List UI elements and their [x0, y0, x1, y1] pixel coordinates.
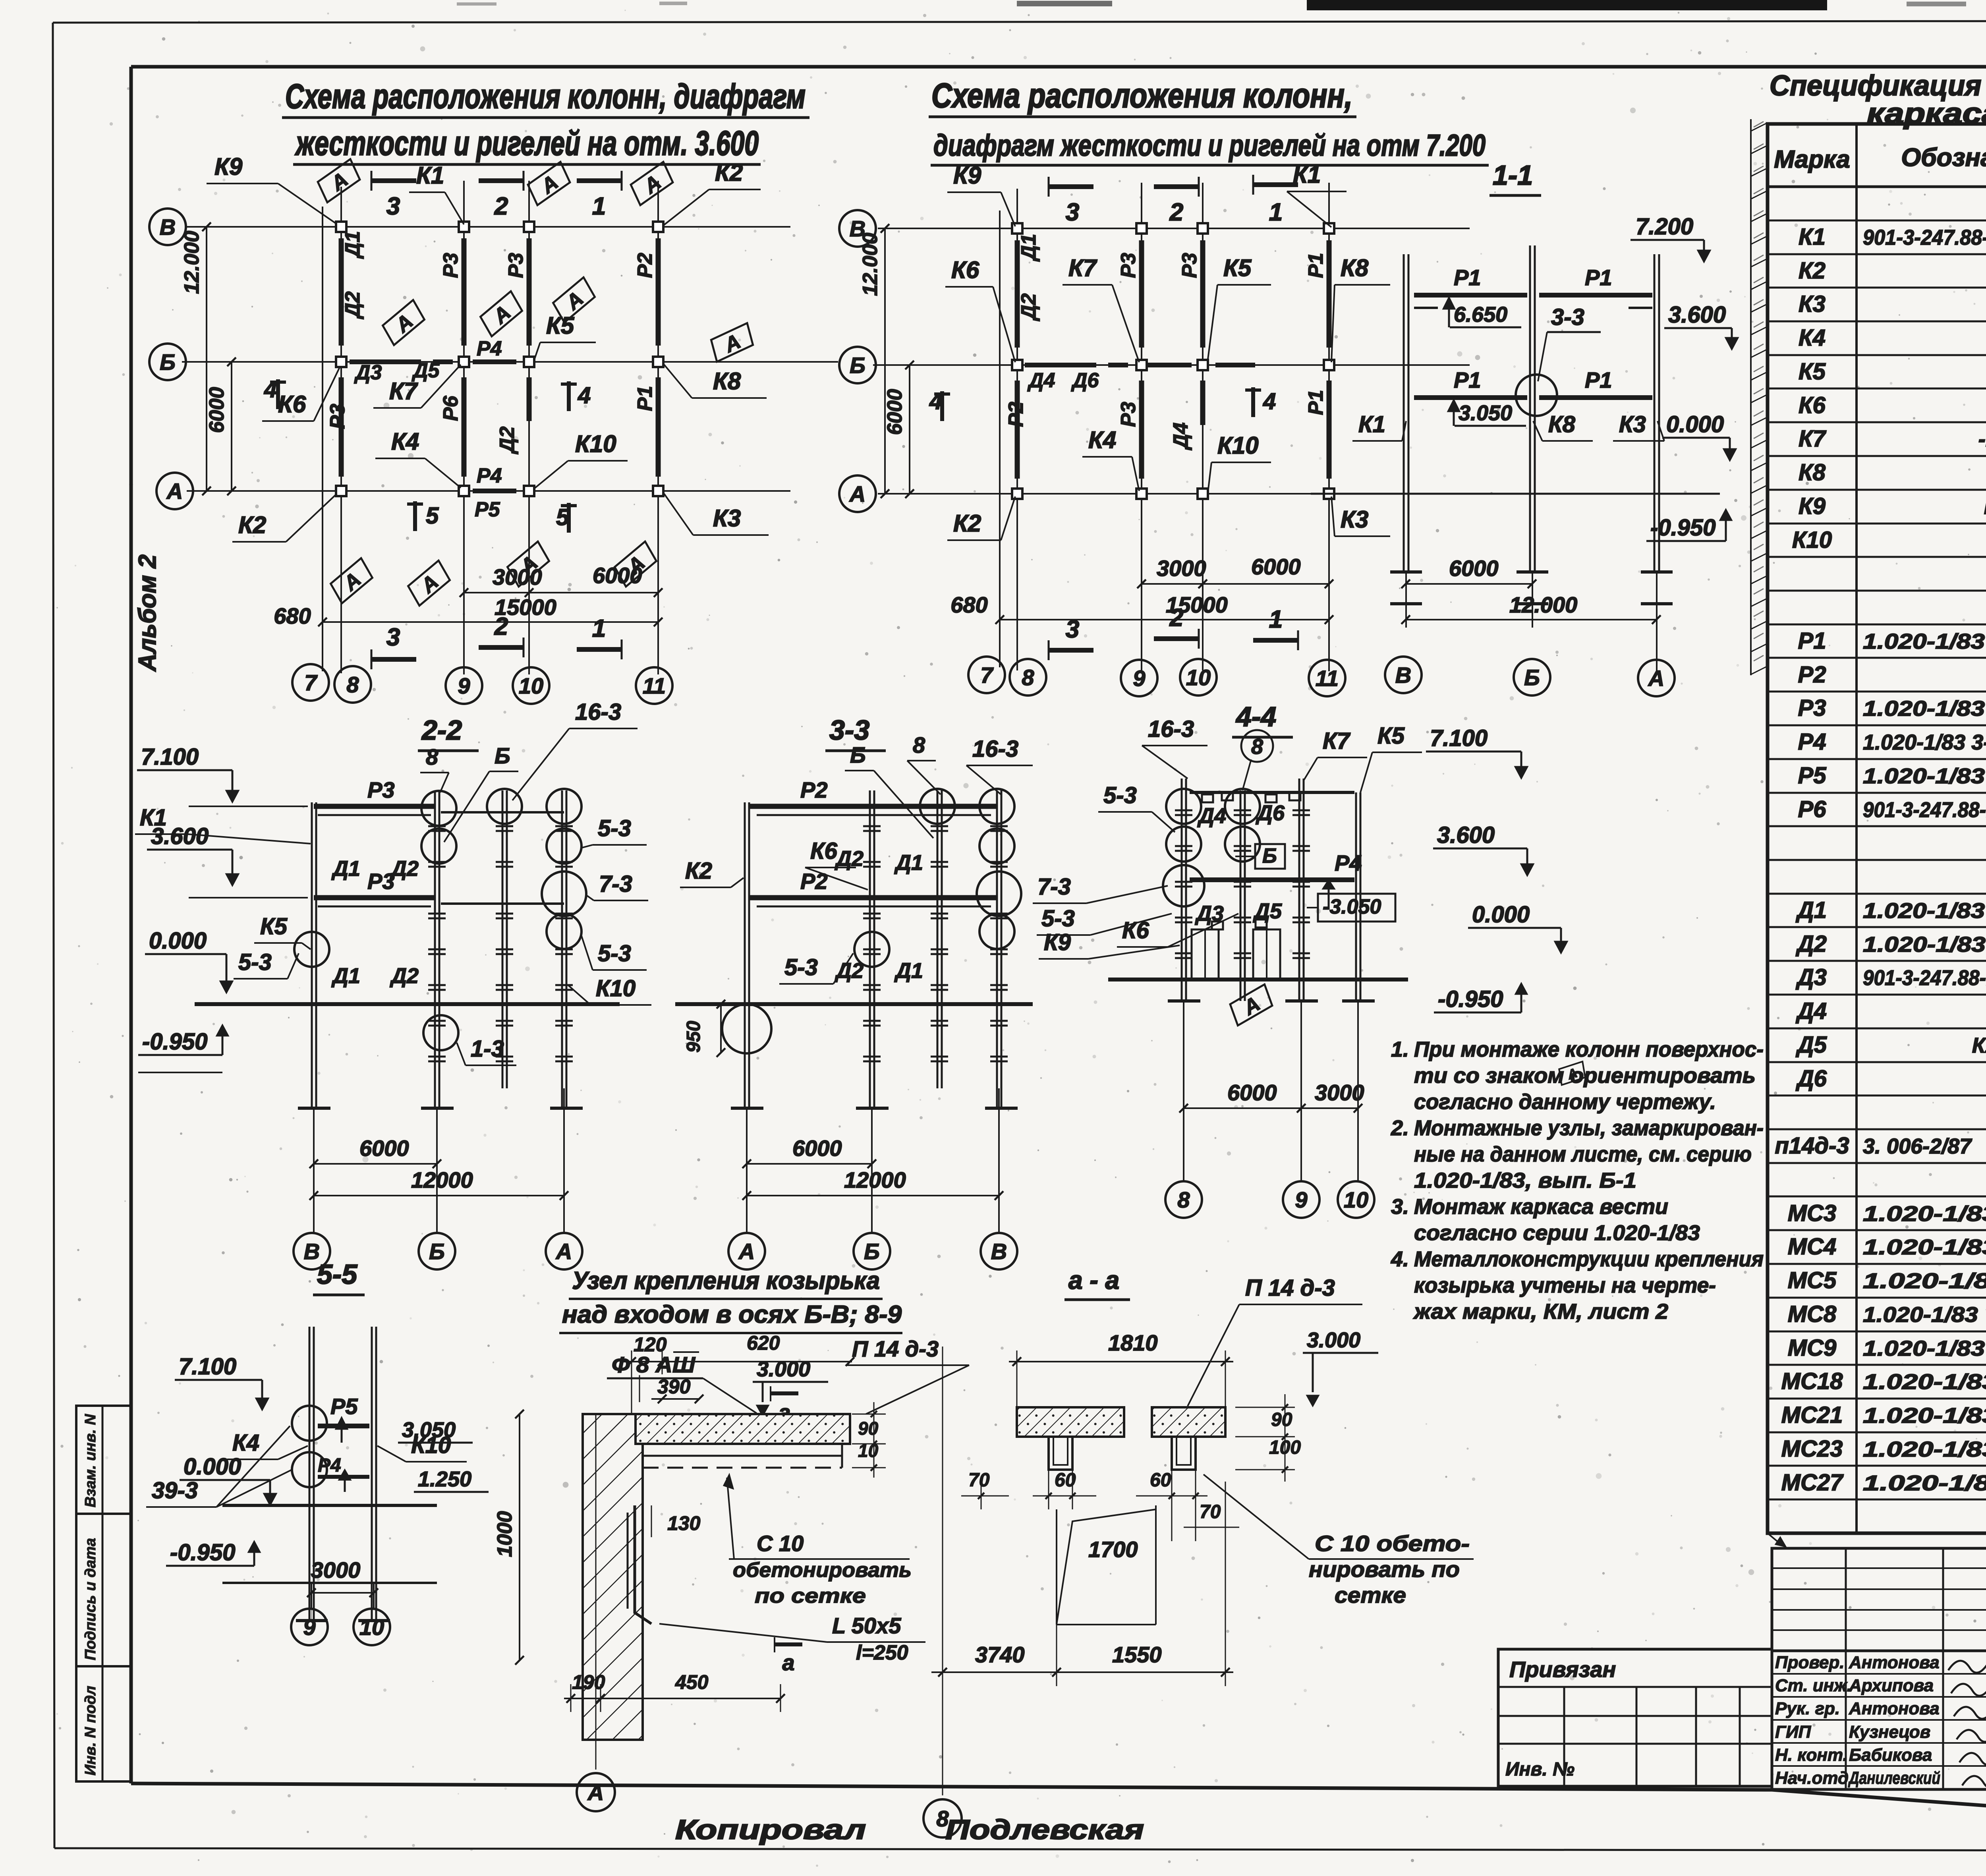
spec table row 20 — [1768, 859, 1986, 861]
spec table row 16 — [1768, 725, 1986, 726]
section 3-3 bottom axis circle B — [854, 1233, 890, 1269]
svg-text:Д3: Д3 — [1195, 902, 1224, 925]
svg-text:Д1: Д1 — [1017, 234, 1040, 262]
svg-text:950: 950 — [683, 1021, 704, 1053]
section 4-4 bottom axis circle 8 — [1165, 1181, 1202, 1218]
section 3-3 diaphragm mid — [937, 790, 939, 1088]
svg-text:39-3: 39-3 — [152, 1478, 198, 1503]
svg-text:3740: 3740 — [975, 1642, 1025, 1667]
svg-text:Р3: Р3 — [1117, 253, 1140, 278]
plan2 section cut 1 bottom — [1253, 638, 1298, 643]
svg-text:5-3: 5-3 — [1041, 906, 1075, 931]
svg-text:3.: 3. — [1391, 1195, 1409, 1219]
svg-text:L 50х5: L 50х5 — [832, 1613, 901, 1638]
plan2 bottom axis circle 7 — [968, 657, 1005, 693]
svg-text:1000: 1000 — [493, 1511, 516, 1557]
svg-text:9: 9 — [303, 1615, 315, 1640]
spec table row 29 — [1768, 1162, 1986, 1164]
svg-text:Р4: Р4 — [1335, 850, 1362, 875]
svg-text:Д5: Д5 — [1253, 899, 1282, 923]
svg-text:5-3: 5-3 — [1103, 782, 1137, 808]
svg-text:2: 2 — [1169, 199, 1183, 226]
spec table row 2 — [1768, 253, 1986, 255]
svg-text:К8: К8 — [1548, 412, 1576, 437]
svg-text:Кузнецов: Кузнецов — [1849, 1722, 1930, 1742]
detail a-a opening sketch 1700 — [1056, 1509, 1057, 1625]
plan1 section cut 1 bottom — [577, 647, 622, 652]
svg-text:1.020-1/83 4-1 22.01: 1.020-1/83 4-1 22.01 — [1863, 933, 1986, 956]
section 1-1 bottom axis circle A — [1638, 660, 1675, 696]
svg-text:-0.950: -0.950 — [142, 1029, 207, 1055]
svg-text:Д4: Д4 — [1027, 369, 1055, 392]
svg-text:КЖ.И 31. 000: КЖ.И 31. 000 — [1972, 1034, 1986, 1057]
svg-text:Д3: Д3 — [1795, 964, 1827, 990]
svg-text:К1: К1 — [1358, 412, 1385, 437]
svg-text:1-3: 1-3 — [471, 1036, 504, 1062]
svg-text:1.020-1/83 7-1 040-02: 1.020-1/83 7-1 040-02 — [1863, 1303, 1986, 1327]
svg-text:0.000: 0.000 — [1666, 412, 1724, 437]
detail a-a left plate — [1017, 1407, 1124, 1437]
section 2-2 joint circle 7-3 — [542, 871, 586, 916]
section 5-5 foot marks — [296, 1619, 328, 1622]
section 3-3 bottom axis circle V — [981, 1233, 1017, 1269]
spec table row 10 — [1768, 523, 1986, 525]
svg-text:Данилевский: Данилевский — [1848, 1768, 1940, 1788]
spec table column lines — [1855, 124, 1858, 1533]
spec table row 23 — [1768, 960, 1986, 962]
section 1-1 beams R1 level 6.650 — [1414, 293, 1527, 298]
svg-text:Монтажные узлы, замаркирован-: Монтажные узлы, замаркирован- — [1414, 1116, 1764, 1140]
svg-text:К5: К5 — [260, 914, 288, 939]
section 3-3 dim 6000 — [747, 1163, 872, 1165]
plan1 dim line 3000 6000 — [464, 592, 658, 593]
svg-text:1.020-1/83 7-1 020: 1.020-1/83 7-1 020 — [1863, 1202, 1986, 1226]
section 3-3 dim 950 — [720, 1004, 722, 1053]
plan2 vertical axis 9 — [1141, 183, 1142, 671]
section 4-4 anchor squares — [1202, 794, 1213, 802]
svg-text:Б: Б — [1524, 665, 1540, 690]
svg-text:А: А — [555, 1239, 572, 1264]
plan2 section cut 3 bottom — [1048, 640, 1050, 660]
svg-text:Д1: Д1 — [331, 964, 360, 988]
section 1-1 ground axis line — [1311, 493, 1720, 495]
svg-text:К10: К10 — [1792, 527, 1832, 553]
svg-text:Р1: Р1 — [634, 386, 657, 411]
svg-text:Узел крепления козырька: Узел крепления козырька — [572, 1267, 880, 1294]
plan2 bottom axis circle 8 — [1010, 659, 1046, 696]
svg-text:Р5: Р5 — [1798, 763, 1827, 788]
svg-text:3000: 3000 — [311, 1557, 361, 1582]
svg-text:Р3: Р3 — [1798, 695, 1826, 721]
section 5-5 dim 3000 — [311, 1592, 374, 1594]
svg-text:Д1: Д1 — [894, 851, 923, 875]
plan1 vertical axis 7 — [322, 207, 323, 671]
svg-text:Р3: Р3 — [367, 777, 395, 802]
svg-text:1.020-1/83 4-1 21-01: 1.020-1/83 4-1 21-01 — [1863, 899, 1986, 923]
spec table row 30 — [1768, 1196, 1986, 1198]
svg-text:Р2: Р2 — [634, 253, 657, 278]
svg-text:0.000: 0.000 — [1472, 902, 1530, 927]
svg-text:Подпись и дата: Подпись и дата — [82, 1538, 99, 1660]
plan1 diaphragm bars upper bay — [339, 238, 344, 346]
plan1 axis line B — [182, 361, 838, 363]
svg-text:Р3: Р3 — [1178, 253, 1201, 278]
plan1 bottom axis circle 7 — [292, 664, 329, 701]
svg-text:МС4: МС4 — [1788, 1234, 1836, 1260]
svg-text:Р1: Р1 — [1454, 367, 1481, 392]
spec table row 24 — [1768, 994, 1986, 996]
section 1-1 column A — [1654, 254, 1656, 572]
svg-text:К5: К5 — [1799, 359, 1826, 384]
svg-text:2.: 2. — [1391, 1116, 1409, 1140]
svg-text:5-5: 5-5 — [317, 1259, 357, 1290]
plan2 bottom axis circle 9 — [1121, 660, 1157, 696]
plan1 section cut 3 top — [371, 171, 373, 191]
svg-text:3.600: 3.600 — [1437, 822, 1495, 848]
spec table row 13 — [1768, 624, 1986, 626]
svg-text:Р2: Р2 — [1005, 402, 1028, 427]
plan2 column squares row B — [1012, 360, 1022, 370]
svg-text:Д1: Д1 — [894, 959, 923, 983]
section 2-2 beam R3 upper — [314, 804, 435, 809]
svg-text:Б: Б — [864, 1239, 880, 1264]
svg-text:К3: К3 — [1341, 506, 1368, 533]
svg-text:-0.950: -0.950 — [1650, 515, 1716, 541]
uzel dim 390 — [639, 1375, 640, 1402]
svg-text:70: 70 — [1200, 1501, 1221, 1522]
section 4-4 label B boxed — [1255, 844, 1285, 869]
left of table tick marks — [1754, 122, 1764, 127]
svg-text:К3: К3 — [1799, 291, 1826, 317]
spec table row 19 — [1768, 825, 1986, 827]
svg-text:К10: К10 — [1217, 432, 1259, 459]
svg-text:сетке: сетке — [1335, 1582, 1406, 1607]
svg-text:90: 90 — [858, 1418, 879, 1439]
svg-text:Р1: Р1 — [1304, 390, 1327, 415]
plan2 vertical dim 6000 — [909, 365, 910, 494]
plan1 bottom axis circle 9 — [446, 667, 482, 704]
svg-text:К7: К7 — [1068, 255, 1097, 281]
svg-text:11: 11 — [643, 673, 666, 698]
section 2-2 beam R3 lower — [314, 895, 435, 900]
svg-text:Р3: Р3 — [504, 253, 527, 278]
svg-text:Провер.: Провер. — [1775, 1653, 1844, 1672]
svg-text:К4: К4 — [232, 1430, 259, 1456]
svg-text:12.000: 12.000 — [180, 231, 203, 294]
svg-text:1.020-1/83 3-1 07-01: 1.020-1/83 3-1 07-01 — [1863, 630, 1986, 653]
svg-text:К10: К10 — [575, 431, 616, 457]
section 2-2 bottom axis circle V — [294, 1233, 330, 1269]
svg-text:15000: 15000 — [495, 595, 556, 620]
section 4-4 label 8 circled — [1241, 730, 1273, 762]
svg-text:Д6: Д6 — [1256, 801, 1285, 825]
plan1 section cut 3 bottom — [371, 649, 373, 669]
svg-text:п14д-3: п14д-3 — [1775, 1133, 1849, 1159]
plan1 orientation flags middle — [380, 300, 429, 346]
svg-text:4: 4 — [264, 377, 277, 402]
svg-text:4: 4 — [1263, 388, 1276, 414]
section 2-2 foot marks — [298, 1107, 330, 1110]
svg-text:680: 680 — [950, 592, 987, 617]
svg-text:К4: К4 — [1799, 325, 1826, 351]
plan2 vertical axis 8 — [1016, 189, 1018, 670]
section 1-1 beams R1 level 3.050 — [1414, 395, 1527, 400]
section 3-3 column K2 — [744, 802, 746, 1108]
section 4-4 foot marks — [1168, 999, 1200, 1003]
svg-text:Схема расположения колонн,: Схема расположения колонн, — [931, 77, 1352, 115]
svg-text:К5: К5 — [1377, 723, 1405, 749]
svg-text:К9: К9 — [1799, 493, 1826, 519]
svg-text:Б: Б — [429, 1239, 445, 1264]
svg-text:нировать по: нировать по — [1309, 1557, 1460, 1582]
svg-text:В: В — [991, 1239, 1007, 1264]
section 4-4 ground line — [1108, 978, 1408, 981]
svg-text:1.020-1/83 6-1 084: 1.020-1/83 6-1 084 — [1863, 1404, 1986, 1428]
svg-text:9: 9 — [458, 673, 470, 698]
svg-text:П 14 д-3: П 14 д-3 — [852, 1336, 939, 1361]
svg-text:1: 1 — [1269, 199, 1283, 226]
svg-text:901-3-247.88-КЖИ. 30.000: 901-3-247.88-КЖИ. 30.000 — [1863, 966, 1986, 990]
svg-text:6000: 6000 — [205, 387, 228, 433]
section 3-3 column right — [996, 790, 998, 1108]
svg-text:К6: К6 — [951, 257, 979, 283]
svg-text:12.000: 12.000 — [859, 233, 882, 296]
svg-text:В: В — [160, 214, 176, 240]
detail a-a bottom axis circle 8 — [923, 1799, 962, 1837]
svg-text:Марка: Марка — [1774, 146, 1850, 173]
spec table row 33 — [1768, 1297, 1986, 1299]
title block privyazan box — [1498, 1649, 1772, 1786]
svg-text:К2: К2 — [953, 510, 981, 537]
spec table row 8 — [1768, 455, 1986, 457]
elevation tick ruler right of 1-1 — [1750, 119, 1752, 675]
section 1-1 dim 6000 — [1406, 583, 1532, 585]
plan1 axis circle A — [156, 473, 193, 509]
svg-text:К6: К6 — [278, 391, 306, 417]
spec table row 1 — [1768, 220, 1986, 222]
section 3-3 tie marks — [863, 825, 881, 827]
svg-text:К7: К7 — [1323, 728, 1351, 754]
svg-text:К3: К3 — [1619, 412, 1646, 437]
svg-text:К2: К2 — [685, 858, 712, 884]
svg-text:К1: К1 — [1799, 224, 1826, 250]
section 5-5 bottom axis circle 9 — [291, 1609, 328, 1645]
svg-text:3: 3 — [386, 624, 400, 651]
plan2 bottom axis circle 11 — [1309, 660, 1345, 696]
svg-text:Д4: Д4 — [1795, 998, 1827, 1024]
svg-text:Д2: Д2 — [341, 291, 364, 319]
plan2 section cut 2 bottom — [1154, 636, 1199, 641]
svg-text:а: а — [782, 1650, 794, 1675]
svg-text:МС21: МС21 — [1781, 1402, 1843, 1428]
svg-text:4-4: 4-4 — [1235, 701, 1276, 732]
uzel axis line to A circle — [595, 1414, 597, 1770]
spec table outer border — [1768, 124, 1986, 1533]
section 4-4 beam R4 — [1190, 877, 1354, 882]
detail a-a right channel — [1172, 1437, 1196, 1470]
svg-text:Д2: Д2 — [1795, 931, 1827, 957]
section 4-4 tie marks — [1175, 810, 1192, 811]
svg-text:7.100: 7.100 — [141, 744, 199, 770]
svg-text:К4: К4 — [1088, 427, 1116, 453]
uzel bottom axis circle A — [577, 1773, 615, 1811]
svg-text:-КЖИ.11.000: -КЖИ.11.000 — [1978, 427, 1986, 451]
section 4-4 joint circles left column — [1166, 789, 1201, 824]
spec table row 18 — [1768, 792, 1986, 794]
svg-text:1.: 1. — [1391, 1037, 1409, 1061]
svg-text:К6: К6 — [810, 838, 838, 864]
svg-text:А: А — [738, 1239, 755, 1264]
svg-text:6000: 6000 — [593, 563, 642, 588]
svg-text:6000: 6000 — [1251, 554, 1301, 579]
svg-text:8: 8 — [346, 672, 359, 697]
svg-text:10: 10 — [1186, 665, 1211, 690]
section 3-3 foundation circle — [722, 1004, 771, 1053]
svg-text:Металлоконструкции крепления: Металлоконструкции крепления — [1414, 1247, 1764, 1271]
svg-text:В: В — [1395, 663, 1411, 688]
svg-text:620: 620 — [747, 1332, 780, 1354]
svg-text:Инв. №: Инв. № — [1505, 1759, 1575, 1780]
svg-text:Р1: Р1 — [1454, 265, 1481, 290]
svg-text:Д2: Д2 — [390, 857, 419, 881]
svg-text:Архипова: Архипова — [1849, 1676, 1934, 1695]
svg-text:К8: К8 — [1799, 460, 1826, 485]
section 4-4 column axis9 — [1298, 779, 1300, 1001]
plan1 column squares row B — [336, 357, 346, 367]
svg-text:10: 10 — [359, 1615, 384, 1640]
spec table row 5 — [1768, 354, 1986, 356]
svg-text:7.100: 7.100 — [1430, 725, 1488, 751]
svg-text:1810: 1810 — [1108, 1330, 1158, 1355]
plan2 axis circle V — [839, 210, 876, 247]
svg-text:16-3: 16-3 — [972, 736, 1018, 762]
plan2 diaphragm bars — [1015, 240, 1020, 348]
svg-text:7: 7 — [304, 670, 318, 695]
svg-text:Р3: Р3 — [326, 404, 349, 429]
section 2-2 ground line — [195, 1002, 620, 1006]
title block signatures squiggles — [1948, 1654, 1986, 1788]
svg-text:3. 006-2/87: 3. 006-2/87 — [1863, 1134, 1972, 1158]
svg-text:70: 70 — [968, 1470, 990, 1491]
svg-text:3000: 3000 — [1315, 1080, 1364, 1105]
svg-text:Антонова: Антонова — [1849, 1699, 1940, 1718]
uzel anchor detail in wall — [635, 1505, 651, 1624]
section 4-4 top slab line — [1190, 791, 1354, 794]
svg-text:1.020-1/83 3-1 17-03: 1.020-1/83 3-1 17-03 — [1863, 764, 1986, 788]
svg-text:Д2: Д2 — [835, 847, 864, 871]
section 4-4 dim 6000 3000 — [1184, 1107, 1358, 1109]
plan1 vertical axis 10 — [528, 181, 530, 674]
spec table row 26 — [1768, 1061, 1986, 1063]
svg-text:7.200: 7.200 — [1636, 214, 1693, 240]
svg-text:Бабикова: Бабикова — [1849, 1745, 1932, 1765]
svg-text:1-1: 1-1 — [1493, 160, 1533, 191]
svg-text:3: 3 — [1066, 199, 1079, 226]
plan1 dim line 15000 — [323, 621, 658, 623]
spec table row 37 — [1768, 1432, 1986, 1434]
section 3-3 dim 12000 — [747, 1195, 999, 1196]
section 2-2 dim 12000 — [314, 1195, 564, 1196]
plan1 vertical axis 9 — [463, 181, 465, 674]
svg-text:КЖИ.12.000: КЖИ.12.000 — [1984, 495, 1986, 519]
detail a-a right plate — [1152, 1407, 1225, 1437]
svg-text:МС3: МС3 — [1788, 1200, 1836, 1226]
plan1 axis line V — [187, 226, 790, 228]
svg-text:Ст. инж.: Ст. инж. — [1775, 1676, 1852, 1695]
svg-text:0.000: 0.000 — [149, 928, 207, 954]
svg-text:С 10: С 10 — [757, 1531, 804, 1556]
svg-text:Копировал: Копировал — [675, 1814, 866, 1845]
section 2-2 column K1 — [311, 802, 313, 1108]
section 1-1 bottom axis circle B — [1514, 659, 1550, 696]
svg-text:3: 3 — [386, 193, 400, 220]
svg-text:8: 8 — [1251, 735, 1263, 759]
plan1 vertical dim 12000 — [206, 227, 207, 491]
svg-text:Р2: Р2 — [1798, 662, 1826, 688]
spec table row 38 — [1768, 1465, 1986, 1467]
plan1 section cut 2 top — [479, 178, 524, 183]
svg-text:К9: К9 — [214, 153, 243, 180]
plan2 vertical axis 7 — [999, 211, 1001, 667]
plan1 section cut 1 top — [577, 178, 622, 183]
svg-text:7: 7 — [980, 663, 994, 688]
section 3-3 bottom axis circle A — [728, 1233, 765, 1269]
svg-text:12000: 12000 — [411, 1167, 473, 1192]
plan2 dim line 3000 6000 — [1142, 583, 1329, 585]
plan1 diaphragm bars lower bay — [339, 377, 344, 477]
svg-text:6000: 6000 — [883, 389, 906, 435]
section 1-1 dim 12000 — [1406, 619, 1656, 620]
svg-text:Д1: Д1 — [1795, 897, 1827, 923]
svg-text:3000: 3000 — [1157, 556, 1206, 581]
svg-text:С 10 обето-: С 10 обето- — [1315, 1531, 1470, 1556]
section 4-4 column axis8 — [1181, 779, 1183, 1001]
plan1 axis circle V — [149, 209, 186, 245]
spec table row 17 — [1768, 758, 1986, 760]
plan2 vertical axis 11 — [1328, 183, 1330, 671]
svg-text:5-3: 5-3 — [784, 954, 818, 980]
plan2 axis line V — [878, 228, 1470, 229]
svg-text:Монтаж каркаса вести: Монтаж каркаса вести — [1414, 1195, 1668, 1219]
section 2-2 dim 6000 — [314, 1163, 437, 1165]
plan2 axis line B — [873, 364, 1470, 366]
svg-text:8: 8 — [913, 732, 925, 757]
section 1-1 column V — [1403, 254, 1405, 572]
svg-text:6.650: 6.650 — [1454, 303, 1507, 327]
spec table row 31 — [1768, 1229, 1986, 1231]
svg-text:5-3: 5-3 — [598, 941, 631, 966]
svg-text:Р3: Р3 — [367, 869, 395, 894]
svg-text:МС18: МС18 — [1781, 1368, 1843, 1394]
svg-text:3.000: 3.000 — [757, 1357, 810, 1381]
title block upper small grid — [1772, 1548, 1986, 1651]
svg-text:-3.050: -3.050 — [1323, 895, 1381, 918]
svg-text:1.020-1/83 7-1 90: 1.020-1/83 7-1 90 — [1863, 1471, 1986, 1495]
svg-text:Антонова: Антонова — [1849, 1653, 1940, 1672]
svg-text:6000: 6000 — [792, 1136, 842, 1161]
svg-text:Р4: Р4 — [477, 464, 502, 487]
section 3-3 joint circles — [920, 789, 955, 824]
svg-text:3-3: 3-3 — [829, 715, 869, 746]
svg-text:5-3: 5-3 — [238, 949, 272, 975]
svg-text:согласно серии 1.020-1/83: согласно серии 1.020-1/83 — [1414, 1221, 1700, 1245]
spec table row 22 — [1768, 926, 1986, 928]
top edge scan smudges — [1307, 0, 1827, 10]
plan1 axis line A — [187, 490, 790, 492]
svg-text:Подлевская: Подлевская — [945, 1814, 1144, 1845]
svg-text:Р6: Р6 — [439, 395, 462, 421]
svg-text:15000: 15000 — [1166, 592, 1228, 617]
